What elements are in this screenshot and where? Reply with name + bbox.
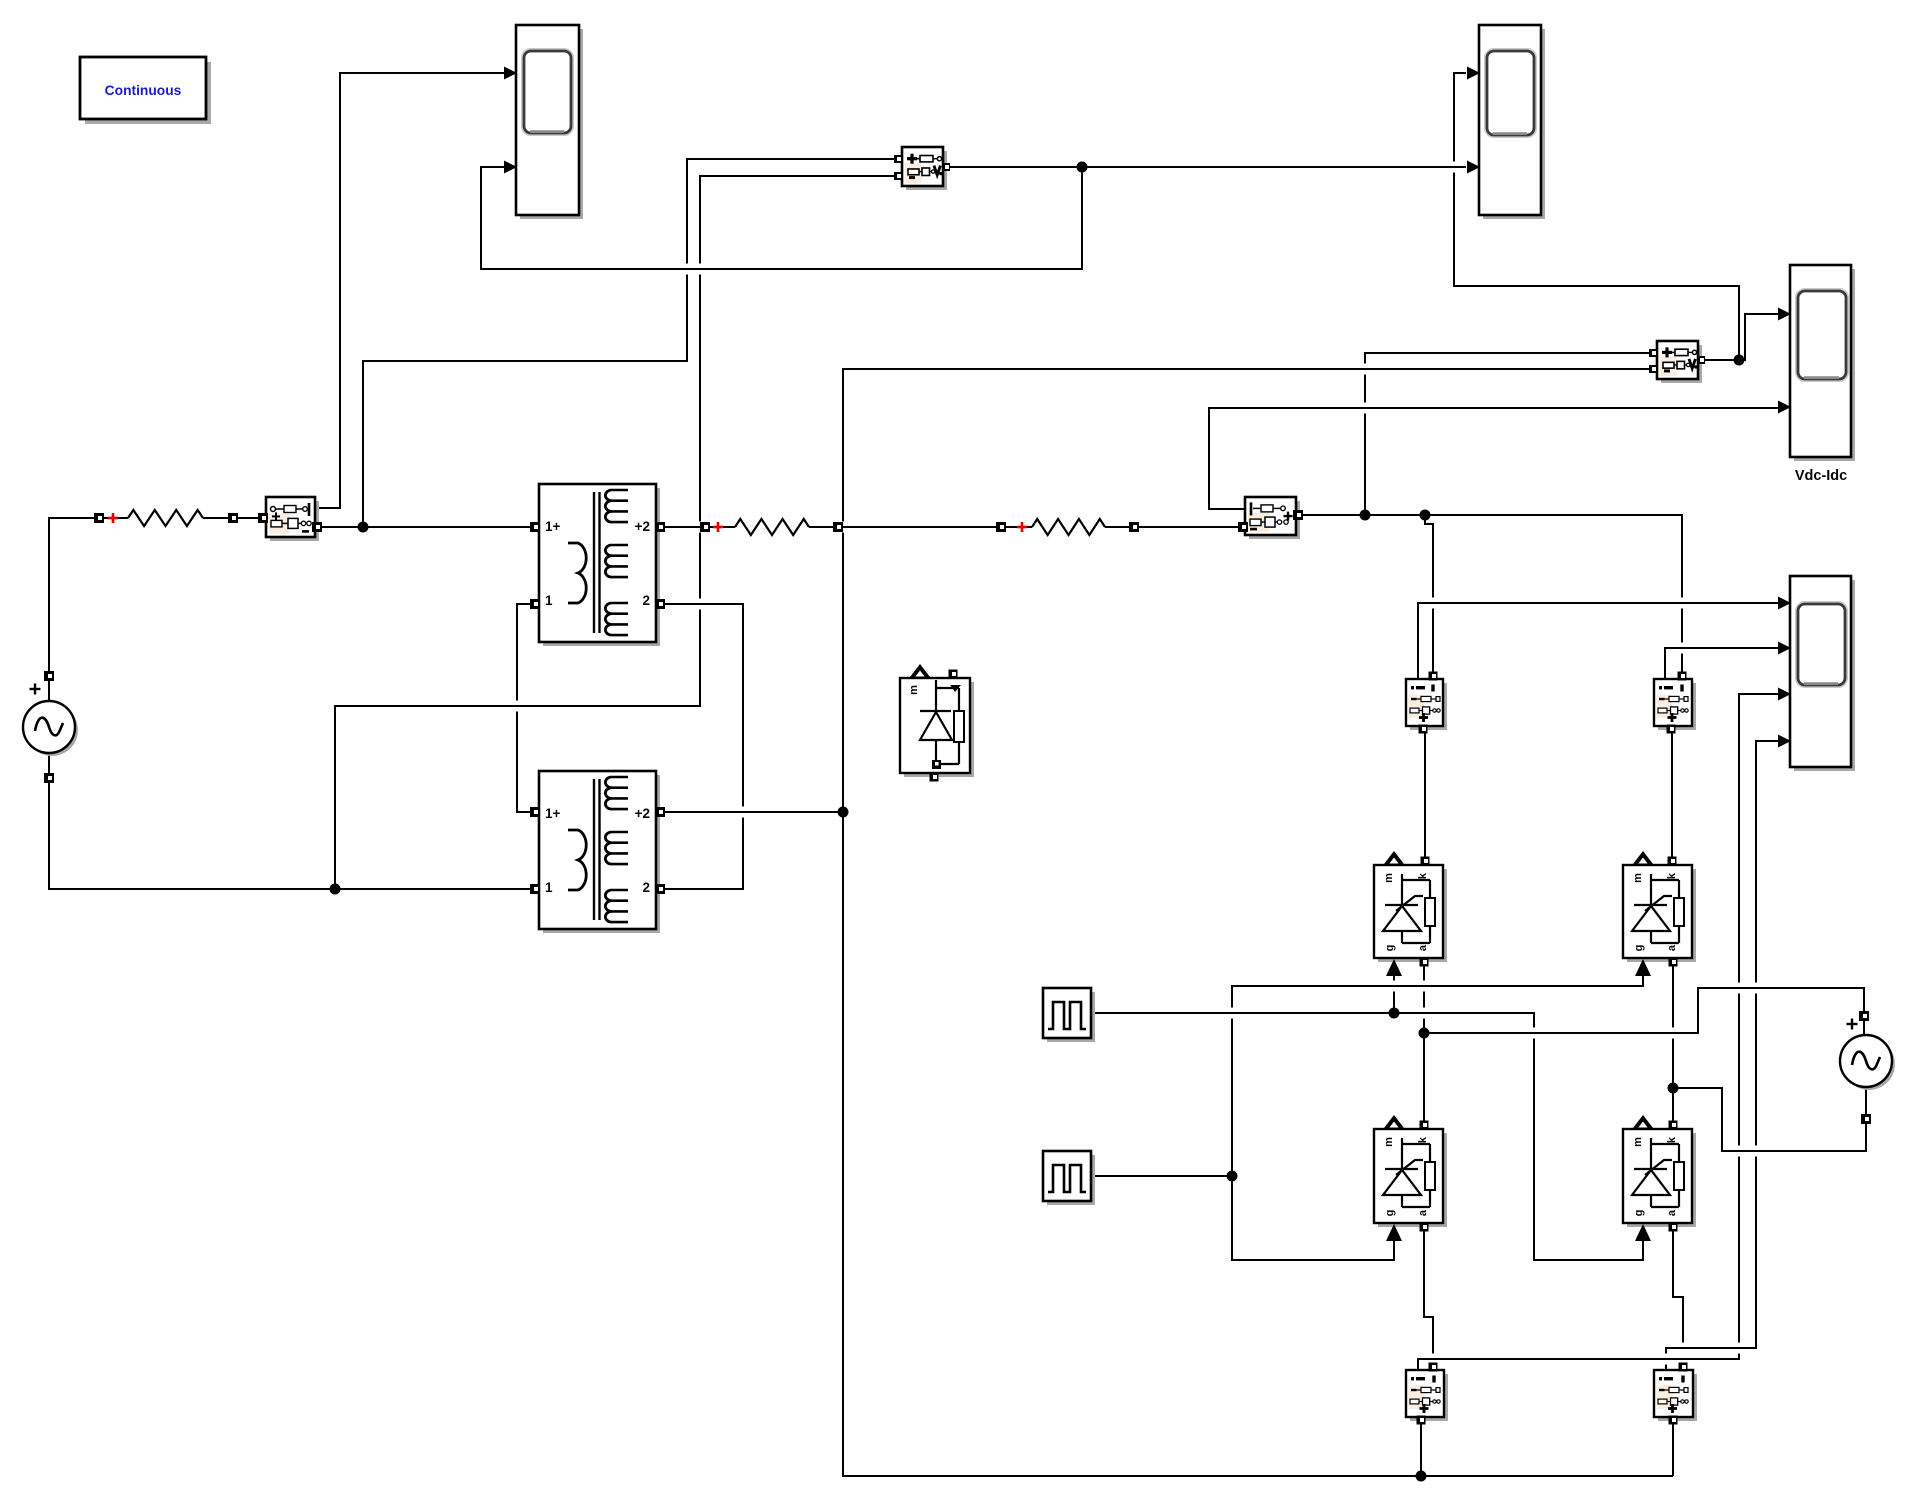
scope S1: [520, 29, 583, 219]
wire T1 a to T3 k: [1423, 964, 1425, 1124]
port XF2 2: [655, 884, 665, 894]
wire CM4 bottom to DC return bus: [1672, 1423, 1674, 1476]
red plus R1: [108, 517, 118, 520]
port XF1 1+: [530, 522, 540, 532]
wire R3 to M2 input: [1105, 526, 1247, 528]
port D1 cathode: [949, 670, 958, 679]
port AC1 -: [44, 773, 54, 783]
current measurement subsystem M2: [1249, 501, 1300, 539]
scope Vdc-Idc: [1794, 269, 1855, 461]
wire CM4 signal to scope S3 input 4: [1666, 741, 1778, 1372]
svg-text:a: a: [1417, 1209, 1429, 1216]
node port R3 right: [1129, 522, 1139, 532]
svg-text:2: 2: [642, 880, 650, 895]
port XF2 +2: [655, 807, 665, 817]
svg-text:m: m: [908, 685, 920, 695]
thyristor T2: [1627, 869, 1696, 962]
wire XF1 port 2 to XF2 port 2: [660, 604, 743, 889]
AC voltage source AC1: [26, 704, 78, 756]
wire R1 to M1 input: [203, 517, 263, 519]
port T3 a: [1420, 1223, 1429, 1232]
wire V2 output to scope S2 input 1: [1454, 73, 1739, 360]
svg-text:+2: +2: [635, 519, 650, 534]
node port R3 left: [996, 522, 1006, 532]
wire AC1 top to resistor R1: [49, 518, 128, 702]
diode block D1: [904, 682, 974, 777]
red plus R2: [713, 526, 723, 529]
wire CM3 bottom to DC return bus: [1420, 1423, 1422, 1476]
port CM3 bottom: [1417, 1416, 1426, 1425]
svg-text:g: g: [1384, 945, 1396, 952]
port T4 k: [1669, 1121, 1678, 1130]
port CM3 top: [1429, 1363, 1438, 1372]
linear transformer XF1: [543, 488, 660, 646]
wire voltmeter V2 output junction: [1702, 359, 1739, 361]
port AC1 +: [44, 671, 54, 681]
wire AC1 bottom to transformer XF2 port 1: [49, 752, 535, 889]
port AC2 -: [1861, 1114, 1871, 1124]
wire T2 anode node to AC2 - terminal: [1673, 1086, 1866, 1151]
svg-text:Continuous: Continuous: [105, 83, 182, 98]
svg-text:1+: 1+: [545, 806, 561, 821]
wire node A to voltmeter V1 + input: [363, 159, 898, 527]
junction AC1 return node: [330, 884, 341, 895]
junction P2 gate split: [1227, 1171, 1238, 1182]
svg-text:k: k: [1417, 1136, 1429, 1143]
svg-text:2: 2: [642, 593, 650, 608]
port CM2 top: [1678, 672, 1687, 681]
junction T1 anode node: [1419, 1028, 1430, 1039]
port T2 a: [1669, 958, 1678, 967]
current measurement CM3: [1410, 1374, 1448, 1421]
red plus R3: [1017, 526, 1027, 529]
wire CM1 bottom to thyristor T1 k: [1424, 733, 1426, 860]
node port R1 right: [228, 513, 238, 523]
junction node A: [358, 522, 369, 533]
linear transformer XF2: [543, 775, 660, 933]
port XF2 1: [530, 884, 540, 894]
wire XF1 +2 to resistor R2: [660, 526, 735, 528]
scope S2: [1483, 29, 1545, 219]
wire T2 a to T4 k: [1672, 964, 1674, 1124]
wire DC+ bus branch to CM1 top: [1425, 515, 1433, 672]
svg-text:k: k: [1417, 872, 1429, 879]
junction V2 output: [1734, 355, 1745, 366]
svg-text:g: g: [1633, 1210, 1645, 1217]
resistor R2: [735, 519, 809, 535]
scope S3: [1794, 580, 1855, 771]
current measurement CM4: [1658, 1374, 1697, 1421]
wire R2 to resistor R3: [809, 526, 1032, 528]
svg-text:m: m: [1383, 873, 1395, 883]
port V2 - input: [1649, 365, 1657, 373]
port M2 output: [1293, 510, 1303, 520]
wire crossing breaks: [685, 264, 689, 275]
port V2 + input: [1649, 349, 1657, 357]
svg-text:k: k: [1666, 872, 1678, 879]
port V2 output: [1697, 356, 1705, 364]
port V1 - input: [894, 172, 902, 180]
svg-text:+2: +2: [635, 806, 650, 821]
current measurement CM2: [1658, 683, 1696, 730]
thyristor T1: [1378, 869, 1447, 962]
thyristor T4: [1627, 1133, 1696, 1227]
port XF1 2: [655, 599, 665, 609]
wire P2 branch to T3 gate: [1232, 1176, 1394, 1260]
wire M2 current signal to scope Vdc-Idc input 2: [1209, 408, 1778, 509]
junction P1 gate split: [1389, 1008, 1400, 1019]
port CM4 top: [1679, 1363, 1688, 1372]
wire T4 a to CM4 top: [1673, 1230, 1683, 1364]
port T1 a: [1420, 958, 1429, 967]
wire M1 current signal to scope S1 input 1: [315, 73, 504, 508]
thyristor T3: [1378, 1133, 1447, 1227]
port T3 k: [1420, 1121, 1429, 1130]
wire node C vertical and bottom DC return bus: [843, 369, 1673, 1476]
node port R2 left: [700, 522, 710, 532]
AC voltage source AC2: [1843, 1038, 1895, 1090]
port V1 + input: [894, 155, 902, 163]
wire CM3 signal to scope S3 input 3: [1418, 694, 1778, 1372]
svg-text:a: a: [1666, 1209, 1678, 1216]
port T4 a: [1669, 1223, 1678, 1232]
port V1 output: [942, 163, 950, 171]
wire XF2 +2 to node C: [660, 811, 843, 813]
wire M1 output to transformer XF1 1+ (node A): [317, 526, 535, 528]
junction DC+ bus to V2: [1360, 510, 1371, 521]
wire XF1 port 1 to XF2 port 1+: [517, 604, 535, 812]
current measurement CM1: [1410, 683, 1447, 730]
svg-text:k: k: [1666, 1136, 1678, 1143]
port CM1 top: [1429, 672, 1438, 681]
svg-text:1: 1: [545, 593, 553, 608]
port CM2 bottom: [1667, 725, 1676, 734]
port M1 input: [258, 513, 268, 523]
port D1 anode: [930, 773, 939, 782]
svg-text:Vdc-Idc: Vdc-Idc: [1795, 468, 1847, 484]
port CM4 bottom: [1669, 1416, 1678, 1425]
wire CM2 signal to scope S3 input 2: [1665, 648, 1778, 681]
current measurement subsystem M1: [270, 501, 319, 541]
wire M2 output DC+ bus to CM2 top: [1296, 515, 1682, 672]
port AC2 +: [1859, 1011, 1869, 1021]
svg-text:m: m: [1632, 873, 1644, 883]
svg-text:a: a: [1666, 944, 1678, 951]
junction DC+ bus to CM1: [1420, 510, 1431, 521]
port T1 k: [1421, 857, 1430, 866]
junction DC return bus at CM3: [1416, 1471, 1427, 1482]
wire voltmeter V1 output to scope S2 input 2: [947, 166, 1466, 168]
port CM1 bottom: [1419, 725, 1428, 734]
wire DC+ bus branch to voltmeter V2 + input: [1365, 353, 1655, 515]
voltage measurement V2 Vdc: [1661, 345, 1702, 383]
resistor R3: [1032, 519, 1105, 535]
port T2 k: [1668, 857, 1677, 866]
resistor R1: [128, 510, 203, 526]
wire V2 output to scope Vdc-Idc input 1: [1739, 314, 1778, 360]
powergui block Continuous: [85, 62, 211, 124]
wire pulse generator P1 to T1 and T4 gates: [1091, 1013, 1643, 1260]
junction T2 anode node: [1668, 1083, 1679, 1094]
wire P2 branch to T2 gate: [1232, 976, 1643, 1176]
svg-text:a: a: [1417, 944, 1429, 951]
svg-text:m: m: [1632, 1137, 1644, 1147]
svg-text:m: m: [1383, 1137, 1395, 1147]
pulse generator P1: [1047, 992, 1095, 1042]
svg-text:1+: 1+: [545, 519, 561, 534]
port XF2 1+: [530, 807, 540, 817]
pulse generator P2: [1047, 1155, 1095, 1205]
wire V1 output branch to scope S1 input 2: [481, 167, 1082, 269]
node port R1 left: [94, 513, 104, 523]
svg-text:g: g: [1384, 1210, 1396, 1217]
wire voltmeter V1 - input to AC1 return node: [335, 176, 898, 889]
port M1 output: [312, 522, 322, 532]
wire pulse generator P2 output: [1091, 1175, 1232, 1177]
wire CM2 bottom to thyristor T2 k: [1671, 733, 1673, 860]
port XF1 +2: [655, 522, 665, 532]
node port R2 right: [833, 522, 843, 532]
port XF1 1: [530, 599, 540, 609]
svg-text:g: g: [1633, 945, 1645, 952]
wire T3 a to CM3 top: [1424, 1230, 1433, 1364]
wire T1 anode node to AC2 + terminal: [1424, 988, 1864, 1037]
wire P1 branch to T1 gate: [1393, 976, 1395, 1013]
port M2 input: [1238, 522, 1248, 532]
voltage measurement V1: [906, 151, 947, 190]
svg-text:1: 1: [545, 880, 553, 895]
junction node C at XF2 +2: [838, 807, 849, 818]
junction V1 output: [1077, 162, 1088, 173]
wire CM1 signal to scope S3 input 1: [1418, 603, 1778, 681]
